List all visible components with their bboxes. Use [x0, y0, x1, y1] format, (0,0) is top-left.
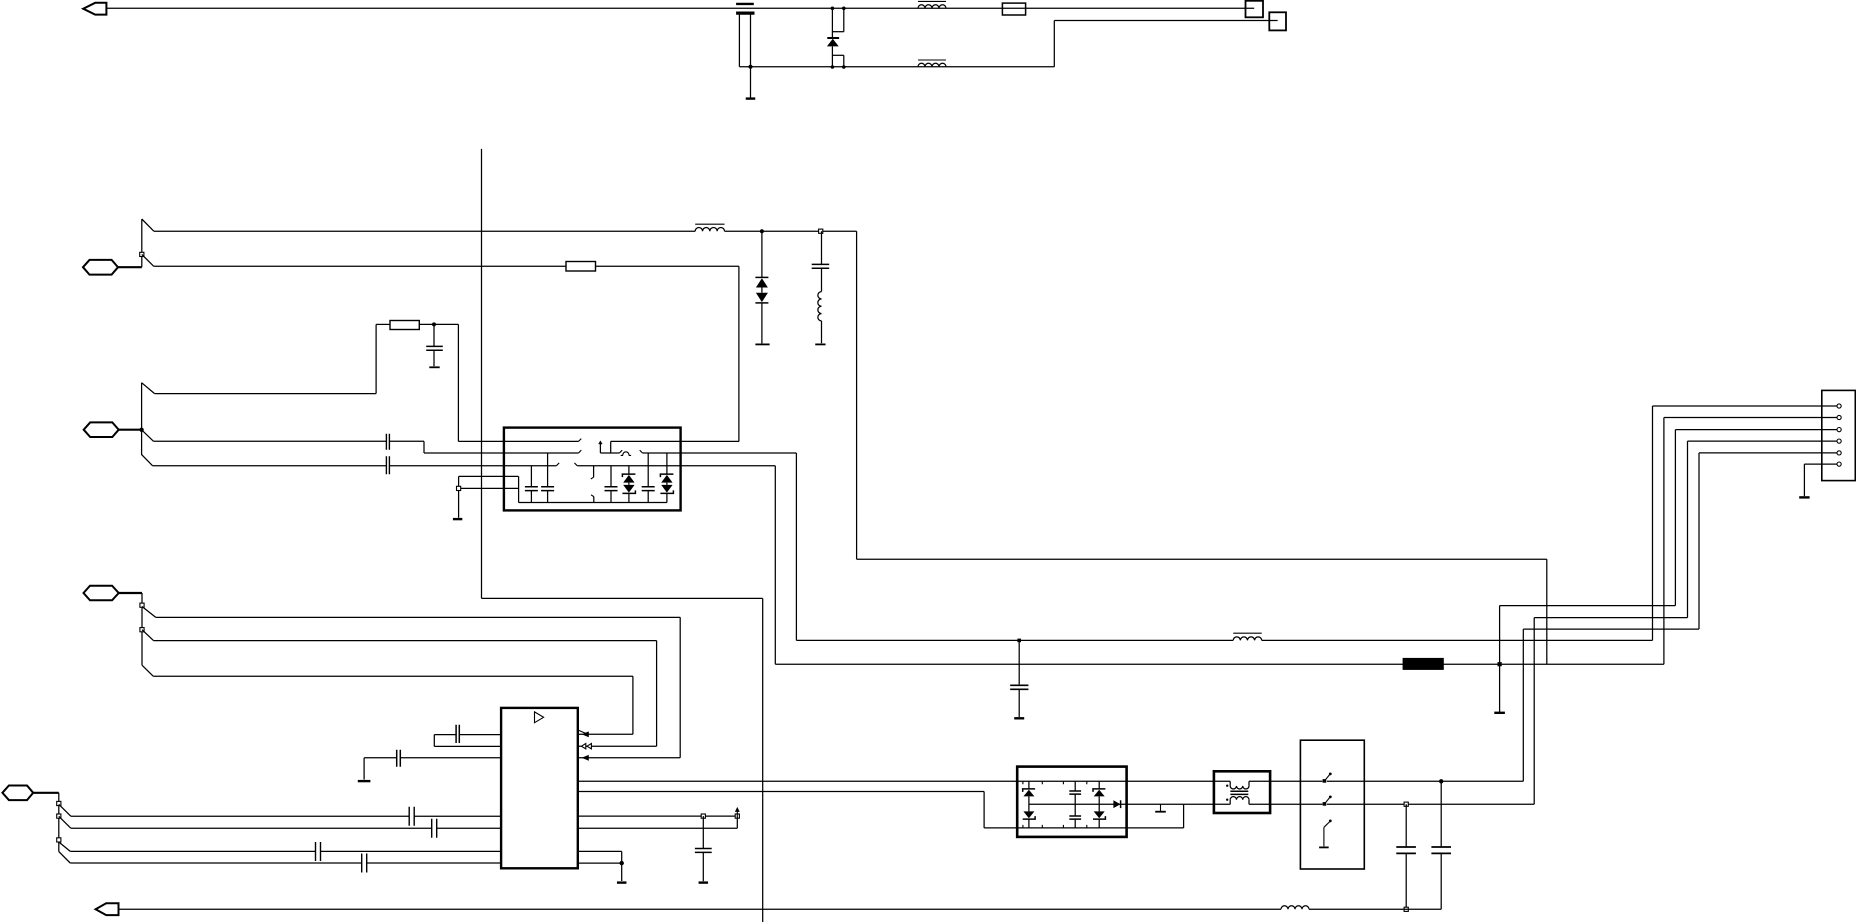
wire bus elbow — [482, 598, 763, 922]
inductor L4 (vertical) — [818, 292, 822, 344]
wire net G3 — [1500, 605, 1676, 607]
wire net S3 loop — [153, 676, 633, 734]
capacitor C1 body leads — [739, 14, 750, 67]
node J2 tap — [139, 428, 143, 432]
wire net D3w — [70, 850, 501, 852]
switch SW1a — [1323, 773, 1332, 783]
wire net B left — [154, 440, 425, 442]
capacitor C8 in U1 — [605, 466, 618, 503]
block SW1 outline — [1300, 740, 1364, 869]
wire net E4 — [578, 862, 622, 864]
node E1 cap tap — [701, 814, 705, 818]
wire J2 stub — [119, 429, 142, 431]
wire J3 angle b — [142, 630, 154, 641]
wire J1 fan angle b — [142, 254, 154, 266]
ground tap BR1 — [1155, 804, 1166, 812]
wire net D1w — [71, 815, 501, 817]
wire BR-mid rise — [1184, 804, 1231, 828]
pulse glyph U1 — [621, 452, 631, 456]
wire riser G5 — [1698, 453, 1700, 629]
node J-D2 — [760, 229, 764, 233]
diode D1 clamp — [827, 8, 844, 67]
wire net F2a — [775, 663, 1664, 665]
wire riser G4 — [1687, 441, 1689, 617]
switch SW1b — [1323, 796, 1332, 806]
wire net AC-L top — [106, 7, 1254, 9]
wire U1 row A right — [599, 442, 622, 453]
wire net D4w — [70, 862, 501, 864]
node J3 tap b — [140, 628, 144, 632]
wire riser G2 — [1663, 418, 1665, 665]
wire F2a gnd branch — [1499, 606, 1501, 712]
capacitor C10 loop — [434, 725, 501, 747]
ground GND4 — [699, 881, 709, 883]
wire net S1 loop — [156, 617, 680, 758]
block BR1 outline — [1017, 767, 1126, 837]
wire net R2 row — [376, 323, 458, 325]
polarity dot T1 pri — [1226, 785, 1228, 787]
capacitor C20 — [1010, 640, 1028, 717]
wire net E2 — [578, 816, 738, 828]
diode D4 TVS in U1 — [660, 453, 673, 503]
node J4 tap b — [57, 814, 61, 818]
port P2 (pin box) — [1246, 1, 1264, 18]
winding T1 secondary — [1230, 797, 1249, 805]
wire net W1a — [154, 230, 857, 232]
pin stub U1 — [591, 466, 594, 479]
terminal bar L4 — [815, 343, 825, 345]
capacitor C4 (series) — [386, 434, 389, 450]
node F1a tap — [1017, 639, 1021, 643]
pin arrow U2-a — [582, 755, 589, 761]
capacitor C13 (series) — [432, 819, 437, 838]
wire J3 fan vertical — [141, 593, 143, 665]
wire J1 fan vertical — [141, 219, 143, 267]
connector J1 (net label) — [83, 260, 118, 275]
ground GND5 — [617, 881, 627, 883]
node J4 tap a — [57, 801, 61, 805]
wire pin2 — [1664, 417, 1837, 419]
wire U1 row B right — [640, 450, 797, 453]
node SW-C19 — [1404, 802, 1408, 806]
port P1 (left off-page arrow) — [83, 3, 106, 15]
connector J2 (net label) — [84, 422, 119, 437]
diode D3 TVS in U1 — [622, 466, 635, 503]
pin hooks BR1 bottom — [1023, 825, 1087, 828]
wire long vertical bus — [481, 149, 483, 599]
node J1 tap — [140, 252, 144, 256]
node C19 bottom — [1404, 907, 1408, 911]
inductor L6 — [1281, 906, 1309, 909]
ground GND2 — [453, 518, 462, 520]
wire U1 row A link — [611, 441, 739, 453]
wire net BR-low — [578, 792, 1184, 828]
connector J3 (net label) — [84, 586, 119, 601]
wire pin3 — [1675, 429, 1837, 431]
inductor L2 — [918, 60, 946, 67]
port P4 (left off-page arrow) — [96, 903, 119, 915]
wire B step — [424, 441, 581, 453]
block T1 outline — [1214, 771, 1270, 813]
node E1 end — [735, 814, 739, 818]
terminal bar C3 — [429, 366, 439, 368]
wire net F1a — [796, 639, 1652, 641]
capacitor C1 plates — [736, 4, 754, 13]
ferrite bead FB1 — [1403, 658, 1444, 670]
node J4 tap c — [57, 838, 61, 842]
wire net C left — [153, 463, 560, 466]
wire J3 angle a — [142, 607, 156, 618]
diode D2 TVS — [755, 231, 768, 343]
ground GND6 — [1014, 717, 1024, 719]
wire U1 tap drop — [458, 491, 460, 518]
inductor L3 — [695, 224, 724, 231]
wire pin1 — [1653, 405, 1838, 407]
capacitor C11 gnd — [364, 750, 501, 767]
wire U1 rail exit — [459, 476, 519, 502]
inductor L5 — [1233, 633, 1262, 640]
capacitor C14 (series) — [316, 842, 321, 861]
wire R2 drop — [457, 324, 459, 441]
ground GND1 — [746, 97, 756, 99]
wire pin4 — [1688, 440, 1838, 442]
wire net AC-N bottom — [739, 66, 1054, 68]
wire pin5 — [1699, 452, 1837, 454]
wire net S2 loop — [154, 641, 657, 747]
wire T1 sec out — [1249, 803, 1322, 805]
wire T1 pri out — [1249, 780, 1322, 782]
pin circles J5 — [1837, 404, 1841, 466]
diode D5 TVS — [1023, 781, 1035, 828]
wire net B drop — [795, 453, 797, 640]
wire J4 angle b — [59, 816, 71, 828]
polarity dot T1 sec — [1226, 799, 1228, 801]
ground GND3 — [358, 780, 371, 782]
wire L2 to P3 — [1054, 21, 1277, 67]
core T1 — [1230, 791, 1248, 794]
wire J2 fan vertical — [141, 383, 143, 455]
resistor R1 — [566, 262, 596, 272]
node R2-C3 — [432, 322, 436, 326]
wire U1 tap link — [461, 487, 519, 489]
wire net G5 — [1523, 629, 1699, 781]
capacitor C17 pair — [1069, 781, 1081, 828]
wire SW1a out — [1327, 780, 1524, 782]
diode D7 — [1113, 800, 1120, 808]
port P3 (pin box) — [1269, 12, 1286, 30]
connector J5 outline — [1822, 390, 1856, 480]
wire J2 fan angle c — [142, 455, 153, 466]
wire J4 angle d — [59, 852, 70, 863]
wire J2 fan angle b — [142, 430, 154, 442]
wire net BR-mid — [1029, 803, 1184, 805]
pin stub U1 rail — [591, 495, 594, 503]
wire net E1 — [578, 815, 738, 817]
capacitor C6 in U1 — [525, 466, 538, 503]
capacitor C7 in U1 — [541, 453, 554, 503]
wire U1 row C right — [574, 463, 775, 466]
capacitor C5 (series) — [386, 456, 389, 474]
node J-C1 — [749, 65, 753, 69]
inductor L1 — [918, 1, 946, 8]
wire riser G1 — [1652, 406, 1654, 640]
wire J4 stub — [33, 793, 59, 852]
wire J1 stub — [118, 266, 142, 268]
wire W1a drop — [856, 231, 858, 559]
capacitor C3 — [426, 324, 443, 366]
pin arrow U2-c — [579, 730, 589, 737]
wire J2 branch a — [155, 324, 377, 393]
capacitor C2 — [812, 231, 830, 291]
capacitor C19 — [1396, 804, 1416, 909]
capacitor C12 (series) — [409, 807, 414, 826]
pin hooks BR1 top — [1023, 781, 1087, 784]
wire J2 fan angle a — [142, 383, 155, 394]
wire J1 fan angle a — [142, 219, 154, 231]
terminal bar SW1c — [1319, 846, 1329, 848]
node SW-C18 — [1439, 779, 1443, 783]
wire net G4 — [1534, 618, 1687, 805]
wire net W1a cross — [857, 559, 1547, 664]
wire net A into U1 — [458, 439, 581, 442]
connector J4 (net label) — [2, 786, 33, 801]
block U1 outline — [504, 428, 681, 511]
resistor R2 — [390, 321, 419, 330]
wire pin6 — [1804, 464, 1837, 496]
wire J4 angle c — [59, 842, 71, 851]
amp glyph U2 — [535, 712, 544, 723]
fuse F1 — [1002, 3, 1025, 15]
winding T1 primary — [1230, 781, 1249, 789]
wire U1 ground rail — [519, 502, 667, 504]
pin mark U2-b — [581, 744, 591, 749]
switch SW1c — [1324, 820, 1332, 847]
capacitor C9 in U1 — [642, 453, 655, 503]
node D1 pins — [831, 7, 846, 69]
terminal bar D2 — [755, 343, 769, 345]
ground GND8 — [1799, 496, 1809, 498]
node F2a junction — [1498, 662, 1502, 666]
wire C11 drop — [363, 758, 365, 780]
capacitor C15 (series) — [362, 854, 367, 873]
wire C1 to ground — [750, 67, 752, 98]
wire net T1-pri — [578, 780, 1230, 782]
wire W1b drop — [738, 266, 740, 441]
wire J4 angle a — [59, 804, 71, 816]
wire riser G3 — [1674, 430, 1676, 606]
ground GND7 — [1494, 712, 1505, 714]
wire net E3 — [578, 851, 622, 881]
wire J3 angle c — [142, 665, 153, 676]
wire net C drop — [774, 466, 776, 665]
wire net bottom shield — [119, 908, 1442, 910]
pin arrow up — [735, 807, 740, 816]
wire net W1b — [154, 265, 739, 267]
diode D6 TVS — [1093, 781, 1105, 828]
node J3 tap a — [140, 603, 144, 607]
capacitor C16 — [695, 816, 712, 881]
wire J3 stub — [119, 592, 142, 594]
wire SW1b out — [1327, 803, 1534, 805]
capacitor C18 — [1431, 781, 1451, 909]
node J-C2 — [819, 229, 823, 233]
node E3-E4 — [620, 861, 624, 865]
block U2 outline — [501, 708, 578, 868]
wire net D2w — [71, 827, 501, 829]
node U1 gnd tap — [457, 486, 461, 490]
